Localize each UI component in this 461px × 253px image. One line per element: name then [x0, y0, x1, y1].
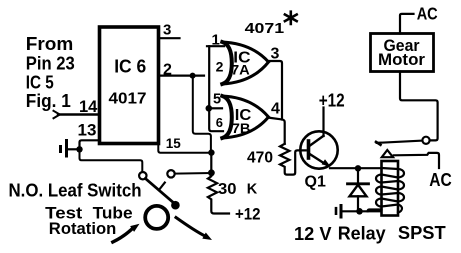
svg-text:AC: AC	[429, 170, 452, 190]
svg-text:7B: 7B	[232, 120, 251, 136]
svg-text:1: 1	[212, 32, 220, 49]
svg-text:4: 4	[271, 101, 280, 118]
svg-text:14: 14	[79, 98, 98, 116]
svg-text:3: 3	[163, 22, 171, 39]
svg-text:Motor: Motor	[378, 51, 426, 69]
svg-text:12 V: 12 V	[294, 223, 332, 244]
svg-text:7A: 7A	[231, 61, 250, 77]
svg-text:30: 30	[218, 181, 237, 198]
svg-text:+12: +12	[319, 91, 345, 111]
svg-text:+12: +12	[235, 204, 261, 223]
svg-text:From: From	[26, 34, 74, 54]
svg-text:4071: 4071	[245, 21, 285, 37]
svg-text:470: 470	[247, 150, 273, 167]
svg-text:IC 5: IC 5	[26, 72, 54, 92]
svg-text:15: 15	[166, 136, 182, 151]
svg-text:K: K	[247, 182, 258, 198]
svg-text:2: 2	[216, 59, 224, 75]
svg-text:5: 5	[213, 91, 221, 107]
svg-text:Pin 23: Pin 23	[26, 54, 75, 74]
svg-text:3: 3	[271, 46, 280, 63]
svg-text:13: 13	[78, 121, 97, 140]
svg-text:N.O. Leaf Switch: N.O. Leaf Switch	[9, 180, 142, 200]
svg-text:IC 6: IC 6	[114, 57, 146, 77]
svg-text:4017: 4017	[109, 91, 147, 108]
svg-text:Rotation: Rotation	[49, 220, 117, 238]
svg-text:6: 6	[216, 115, 223, 130]
svg-text:Q1: Q1	[305, 174, 326, 191]
svg-text:SPST: SPST	[398, 223, 446, 243]
svg-text:AC: AC	[417, 3, 438, 23]
svg-text:Fig. 1: Fig. 1	[26, 91, 71, 111]
svg-text:2: 2	[163, 62, 172, 79]
svg-text:Relay: Relay	[338, 224, 386, 244]
